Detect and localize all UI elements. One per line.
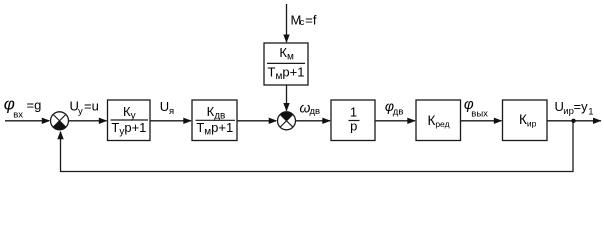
svg-text:Кдв: Кдв [207, 104, 226, 122]
svg-text:Км: Км [279, 45, 294, 63]
svg-text:Тмp+1: Тмp+1 [196, 120, 233, 138]
svg-text:1: 1 [588, 107, 593, 118]
svg-text:U: U [160, 99, 169, 114]
svg-text:=g: =g [27, 98, 42, 113]
svg-text:Туp+1: Туp+1 [111, 120, 146, 138]
svg-text:дв: дв [393, 107, 404, 118]
svg-text:p: p [350, 119, 357, 134]
svg-text:вых: вых [471, 109, 488, 120]
svg-text:=u: =u [84, 99, 99, 114]
svg-text:я: я [169, 106, 174, 117]
svg-text:=у: =у [574, 99, 589, 114]
svg-text:=f: =f [305, 13, 317, 28]
svg-text:с: с [300, 17, 305, 28]
svg-text:ир: ир [563, 106, 574, 117]
svg-text:1: 1 [350, 105, 357, 120]
svg-text:у: у [78, 106, 83, 117]
svg-text:Ку: Ку [123, 104, 136, 122]
svg-text:дв: дв [310, 106, 321, 117]
svg-text:вх: вх [13, 109, 23, 120]
svg-text:Тмp+1: Тмp+1 [268, 65, 305, 83]
svg-text:Кред: Кред [427, 113, 449, 129]
svg-text:Кир: Кир [519, 112, 537, 128]
